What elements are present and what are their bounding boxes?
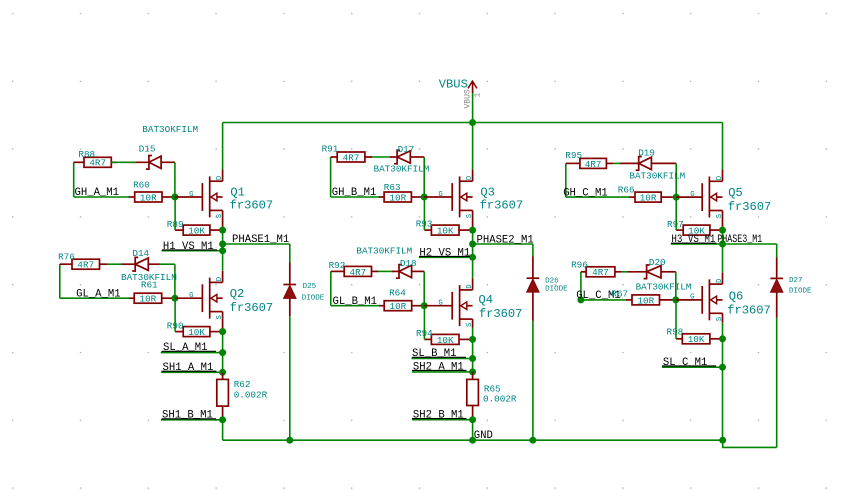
wire GND jog right <box>722 446 777 448</box>
svg-text:4R7: 4R7 <box>350 267 367 278</box>
wire H1_VS_M1 wire <box>162 250 223 252</box>
svg-text:D19: D19 <box>638 147 655 158</box>
svg-text:fr3607: fr3607 <box>728 200 772 214</box>
wire D26 to GND <box>532 321 534 440</box>
junction Q5 source / R97 <box>719 227 726 234</box>
svg-text:D: D <box>466 175 474 180</box>
svg-text:0.002R: 0.002R <box>234 390 268 401</box>
wire PHASE2_M1 wire <box>473 243 533 245</box>
wire Q1 drain drop <box>222 123 224 171</box>
svg-text:S: S <box>466 213 474 218</box>
resistor R63 (10R) <box>379 192 425 202</box>
net label GH_C_M1 <box>563 187 608 199</box>
svg-text:R61: R61 <box>141 280 158 291</box>
junction SL_C node <box>719 364 726 371</box>
junction Q6 source / R98 <box>719 335 726 342</box>
junction Q5 gate node <box>673 194 680 201</box>
svg-text:4R7: 4R7 <box>77 260 94 271</box>
svg-text:S: S <box>466 322 474 327</box>
wire R92 to D18 <box>377 270 393 272</box>
svg-text:D17: D17 <box>398 144 415 155</box>
wire gate node to R89 <box>174 197 176 230</box>
diode D25 (DIODE, cathode up) <box>284 285 297 299</box>
wire H2_VS_M1 wire <box>419 256 473 258</box>
wire VBUS top rail <box>223 122 723 124</box>
wire GL_A loop left vertical <box>59 264 61 298</box>
svg-text:D26: D26 <box>545 277 559 285</box>
resistor R66 (10R) <box>630 192 677 202</box>
junction PHASE2 node <box>469 241 476 248</box>
junction Q3 source / R93 <box>469 227 476 234</box>
transistor Q5 (fr3607 N-MOSFET) <box>676 170 723 230</box>
diode D19 (BAT30KFILM schottky) <box>620 157 676 171</box>
transistor Q6 (fr3607 N-MOSFET) <box>676 273 723 323</box>
svg-text:D: D <box>716 175 724 180</box>
wire GL_B loop left vertical <box>330 271 332 305</box>
net label PHASE3_M1 <box>717 234 762 246</box>
svg-text:BAT3OKFILM: BAT3OKFILM <box>142 124 198 135</box>
svg-text:fr3607: fr3607 <box>727 304 771 318</box>
svg-text:R96: R96 <box>571 260 588 271</box>
diode D18 (BAT30KFILM schottky) <box>392 265 424 279</box>
net label H1_VS_M1 <box>162 241 217 253</box>
svg-text:D25: D25 <box>303 283 317 291</box>
wire H3_VS / PHASE3 wire <box>671 243 777 245</box>
wire GH_B_M1 wire <box>331 196 379 198</box>
wire PHASE1 to D25 <box>289 244 291 263</box>
wire PHASE3 to D27 <box>776 244 778 258</box>
junction Q4 gate node <box>421 302 428 309</box>
wire gate node to R93 <box>423 197 425 230</box>
wire R96 to D20 <box>621 271 628 273</box>
svg-text:G: G <box>690 191 694 199</box>
net label SL_A_M1 <box>162 342 217 354</box>
diode D17 (BAT30KFILM schottky) <box>390 150 424 164</box>
svg-text:R60: R60 <box>133 179 150 190</box>
wire VBUS stem <box>472 93 474 123</box>
wire A column <box>222 230 224 251</box>
wire GH_C loop left vertical <box>565 163 567 197</box>
svg-text:10R: 10R <box>140 294 157 305</box>
svg-text:G: G <box>189 191 193 199</box>
net label GL_B_M1 <box>333 296 378 308</box>
wire SL_C_M1 wire <box>662 366 723 368</box>
svg-text:S: S <box>216 315 224 320</box>
wire SH1_B_M1 wire <box>161 419 223 421</box>
junction C leg / GND rail corner <box>719 437 726 444</box>
net label GH_A_M1 <box>75 187 120 199</box>
svg-text:R67: R67 <box>611 289 628 300</box>
resistor R89 (10K) <box>175 225 223 235</box>
svg-text:SH2_B_M1: SH2_B_M1 <box>413 410 464 422</box>
svg-text:D: D <box>466 284 474 289</box>
junction Q2 gate node <box>171 295 178 302</box>
svg-text:SL_B_M1: SL_B_M1 <box>412 348 457 360</box>
net label SH2_A_M1 <box>412 361 467 373</box>
wire gate node to R97 <box>675 197 677 230</box>
junction SH1_A node <box>219 369 226 376</box>
svg-text:DIODE: DIODE <box>302 294 325 302</box>
svg-text:VBUS: VBUS <box>464 89 473 108</box>
wire B column low <box>472 339 474 372</box>
svg-text:PHASE2_M1: PHASE2_M1 <box>477 234 534 246</box>
wire B leg to GND <box>472 420 474 441</box>
svg-text:0.002R: 0.002R <box>483 394 517 405</box>
junction SL_A node <box>219 349 226 356</box>
net label H2_VS_M1 <box>419 247 470 259</box>
junction Q4 source / R94 <box>469 336 476 343</box>
svg-text:R64: R64 <box>389 287 406 298</box>
svg-text:R95: R95 <box>565 150 582 161</box>
junction Q2 source / R90 <box>219 328 226 335</box>
svg-text:SL_A_M1: SL_A_M1 <box>163 342 208 354</box>
resistor R76 (4R7) <box>60 259 107 269</box>
svg-text:PHASE1_M1: PHASE1_M1 <box>232 234 289 246</box>
shunt resistor R62 (0.002R) <box>217 372 229 420</box>
junction Q1 source / R89 <box>219 227 226 234</box>
wire Q6 source to node <box>722 323 724 339</box>
svg-text:10K: 10K <box>188 327 205 338</box>
resistor R95 (4R7) <box>566 158 613 168</box>
wire D25 to GND <box>289 316 291 440</box>
wire D20 to gate node <box>675 272 677 300</box>
wire GH_A loop left vertical <box>73 162 75 197</box>
svg-text:4R7: 4R7 <box>343 152 360 163</box>
svg-text:SL_C_M1: SL_C_M1 <box>663 357 708 369</box>
svg-text:fr3607: fr3607 <box>480 199 524 213</box>
svg-text:Q3: Q3 <box>480 185 495 199</box>
wire SL_B_M1 wire <box>412 358 473 360</box>
svg-text:S: S <box>216 213 224 218</box>
svg-text:R91: R91 <box>322 144 339 155</box>
resistor R97 (10K) <box>676 225 722 235</box>
resistor R90 (10K) <box>175 327 223 337</box>
svg-text:BAT30KFILM: BAT30KFILM <box>636 282 692 293</box>
wire GH_A_M1 wire <box>74 196 130 198</box>
wire D14 to gate node <box>174 264 176 298</box>
shunt resistor R65 (0.002R) <box>467 372 479 420</box>
resistor R61 (10R) <box>129 293 175 303</box>
svg-text:SH2_A_M1: SH2_A_M1 <box>413 361 464 373</box>
svg-text:R66: R66 <box>618 185 635 196</box>
junction Q1 gate node <box>171 194 178 201</box>
wire C column to Q6 drain <box>722 244 724 273</box>
svg-text:S: S <box>716 316 724 321</box>
wire gate node to R94 <box>423 306 425 340</box>
diode D14 (BAT30KFILM schottky) <box>122 257 161 271</box>
wire PHASE1_M1 wire <box>223 243 290 245</box>
junction H2_VS node <box>469 254 476 261</box>
svg-text:10K: 10K <box>188 226 205 237</box>
wire D19 to gate node <box>675 163 677 197</box>
junction PHASE1 node <box>219 241 226 248</box>
svg-text:10R: 10R <box>637 295 654 306</box>
svg-text:fr3607: fr3607 <box>230 199 274 213</box>
net label H3_VS_M1 <box>671 234 717 246</box>
junction SH1_B node <box>219 416 226 423</box>
svg-text:4R7: 4R7 <box>585 159 602 170</box>
svg-text:10R: 10R <box>390 301 407 312</box>
wire SH2_B_M1 wire <box>412 419 473 421</box>
junction PHASE3 / H3_VS node <box>719 241 726 248</box>
net label GL_C_M1 <box>576 290 621 302</box>
wire D18 to gate node <box>423 271 425 305</box>
junction Q3 gate node <box>421 194 428 201</box>
svg-text:GL_B_M1: GL_B_M1 <box>333 296 378 308</box>
diode D15 (BAT3OKFILM schottky) <box>130 156 175 170</box>
svg-text:1: 1 <box>474 93 483 98</box>
svg-text:D20: D20 <box>649 257 666 268</box>
svg-text:10R: 10R <box>640 193 657 204</box>
wire Q4 source to node <box>472 328 474 340</box>
svg-text:H1_VS_M1: H1_VS_M1 <box>163 241 214 253</box>
resistor R96 (4R7) <box>581 267 621 277</box>
svg-text:BAT30KFILM: BAT30KFILM <box>356 246 412 257</box>
svg-text:BAT30KFILM: BAT30KFILM <box>374 164 430 175</box>
svg-text:S: S <box>716 213 724 218</box>
resistor R93 (10K) <box>424 225 472 235</box>
svg-text:H3_VS_M1: H3_VS_M1 <box>671 234 715 246</box>
transistor Q3 (fr3607 N-MOSFET) <box>424 170 472 230</box>
wire SH2_A_M1 wire <box>412 371 473 373</box>
svg-text:Q5: Q5 <box>728 186 743 200</box>
wire B column to Q4 drain <box>472 257 474 278</box>
svg-text:PHASE3_M1: PHASE3_M1 <box>717 234 762 246</box>
wire GND jog down <box>722 440 724 447</box>
wire GH_C_M1 wire <box>566 196 630 198</box>
transistor Q4 (fr3607 N-MOSFET) <box>424 278 472 327</box>
wire Q5 drain drop <box>722 123 724 171</box>
svg-text:4R7: 4R7 <box>89 158 106 169</box>
svg-text:DIODE: DIODE <box>545 286 568 294</box>
net label SH2_B_M1 <box>412 410 467 422</box>
wire B column <box>472 230 474 257</box>
svg-text:Q2: Q2 <box>230 287 245 301</box>
resistor R88 (4R7) <box>74 157 117 167</box>
wire D14 right <box>159 263 175 265</box>
svg-text:R92: R92 <box>329 260 346 271</box>
svg-text:G: G <box>438 300 442 308</box>
net label SL_C_M1 <box>662 357 716 369</box>
svg-text:GH_C_M1: GH_C_M1 <box>563 187 608 199</box>
junction D25 / GND rail <box>286 437 293 444</box>
svg-text:10K: 10K <box>437 335 454 346</box>
net label SH1_B_M1 <box>162 410 217 422</box>
junction D26 / GND rail <box>529 437 536 444</box>
svg-text:D18: D18 <box>400 258 417 269</box>
svg-text:G: G <box>438 191 442 199</box>
wire R76 to D14 <box>107 263 122 265</box>
resistor R91 (4R7) <box>331 152 372 162</box>
junction VBUS / top rail <box>469 119 476 126</box>
wire D15 to gate node <box>174 162 176 197</box>
junction H1_VS node <box>219 247 226 254</box>
svg-text:GL_A_M1: GL_A_M1 <box>76 288 121 300</box>
wire phase A leg to GND <box>222 420 224 440</box>
wire gate node to R98 <box>675 300 677 339</box>
junction SH2_B node <box>469 416 476 423</box>
svg-text:Q4: Q4 <box>479 293 494 307</box>
svg-text:D15: D15 <box>139 143 156 154</box>
wire SH1_A_M1 wire <box>161 371 222 373</box>
net label GH_B_M1 <box>332 187 377 199</box>
junction Q6 gate node <box>672 296 679 303</box>
svg-text:H2_VS_M1: H2_VS_M1 <box>419 247 470 259</box>
svg-text:GND: GND <box>474 430 493 442</box>
wire SL_A_M1 wire <box>161 352 223 354</box>
svg-text:4R7: 4R7 <box>592 267 609 278</box>
svg-text:D: D <box>716 278 724 283</box>
junction GL_C label node <box>577 296 584 303</box>
svg-text:R63: R63 <box>384 182 401 193</box>
net label PHASE1_M1 <box>232 234 289 246</box>
resistor R92 (4R7) <box>331 266 378 276</box>
wire A column low <box>222 332 224 373</box>
diode D27 (DIODE, cathode up) <box>770 278 783 292</box>
svg-text:DIODE: DIODE <box>789 287 812 295</box>
wire Q3 drain drop <box>472 123 474 171</box>
wire R91 to D17 <box>371 156 392 158</box>
svg-text:R76: R76 <box>58 252 75 263</box>
resistor R94 (10K) <box>424 334 472 344</box>
wire R95 to D19 <box>613 162 621 164</box>
svg-text:10K: 10K <box>688 334 705 345</box>
wire GL_A_M1 wire <box>60 297 130 299</box>
wire D27 to GND jog <box>776 318 778 448</box>
wire C column low <box>722 339 724 440</box>
wire GL_C_M1 wire <box>581 299 627 301</box>
junction B leg / GND rail <box>469 437 476 444</box>
net label PHASE2_M1 <box>477 234 534 246</box>
svg-text:SH1_B_M1: SH1_B_M1 <box>162 410 213 422</box>
net label SL_B_M1 <box>412 348 466 360</box>
resistor R60 (10R) <box>129 192 175 202</box>
svg-text:SH1_A_M1: SH1_A_M1 <box>163 362 214 374</box>
junction SL_B node <box>469 355 476 362</box>
transistor Q1 (fr3607 N-MOSFET) <box>175 170 223 230</box>
wire GND bottom rail <box>223 439 723 441</box>
net label GL_A_M1 <box>76 288 121 300</box>
svg-text:10K: 10K <box>437 226 454 237</box>
svg-text:Q1: Q1 <box>230 185 245 199</box>
resistor R98 (10K) <box>676 334 723 344</box>
resistor R67 (10R) <box>626 295 676 305</box>
diode D26 (DIODE, cathode up) <box>527 278 540 292</box>
junction SH2_A node <box>469 368 476 375</box>
wire GH_B loop left vertical <box>330 157 332 197</box>
svg-text:R62: R62 <box>234 379 251 390</box>
wire GL_C loop left vertical <box>580 272 582 300</box>
svg-text:D: D <box>216 276 224 281</box>
wire D17 to gate node <box>423 157 425 197</box>
power symbol VBUS <box>468 81 477 93</box>
svg-text:fr3607: fr3607 <box>230 301 274 315</box>
wire R88 to D15 <box>111 161 136 163</box>
net label SH1_A_M1 <box>162 362 217 374</box>
svg-text:Q6: Q6 <box>729 290 744 304</box>
transistor Q2 (fr3607 N-MOSFET) <box>175 271 223 332</box>
wire gate node to R90 <box>174 298 176 331</box>
wire C column <box>722 230 724 244</box>
svg-text:GH_B_M1: GH_B_M1 <box>332 187 377 199</box>
svg-text:R97: R97 <box>667 219 684 230</box>
wire GL_B_M1 wire <box>331 305 379 307</box>
wire PHASE2 to D26 <box>532 244 534 257</box>
svg-text:10R: 10R <box>140 192 157 203</box>
diode D20 (BAT30KFILM schottky) <box>627 265 676 279</box>
svg-text:D27: D27 <box>789 277 803 285</box>
svg-text:R98: R98 <box>667 327 684 338</box>
resistor R64 (10R) <box>379 301 425 311</box>
svg-text:G: G <box>690 294 694 302</box>
svg-text:D14: D14 <box>132 248 149 259</box>
svg-text:G: G <box>189 292 193 300</box>
svg-text:10R: 10R <box>389 192 406 203</box>
svg-text:fr3607: fr3607 <box>479 307 523 321</box>
wire A column to Q2 drain <box>222 251 224 271</box>
svg-text:GH_A_M1: GH_A_M1 <box>75 187 120 199</box>
svg-text:D: D <box>216 175 224 180</box>
